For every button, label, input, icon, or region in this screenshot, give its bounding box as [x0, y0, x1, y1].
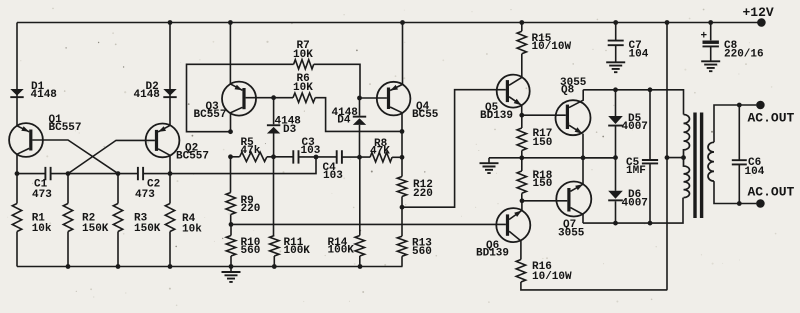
diode D4	[353, 116, 366, 125]
resistor R15	[521, 23, 523, 32]
svg-text:220: 220	[241, 203, 261, 215]
wire R7 left path	[187, 64, 294, 131]
svg-text:4007: 4007	[622, 197, 648, 209]
wire D-junction to ground row	[583, 157, 616, 159]
wire D5 top stub	[615, 90, 617, 116]
diode D2	[163, 89, 176, 98]
wire Q3 emitter from rail	[229, 23, 231, 84]
svg-text:104: 104	[745, 166, 765, 178]
svg-text:BC557: BC557	[49, 122, 82, 134]
wire D6 bottom stub	[615, 201, 617, 223]
resistor R5	[240, 152, 267, 161]
resistor R4	[169, 174, 171, 204]
wire R8 right stub	[392, 156, 402, 158]
node D3 bottom junction	[271, 154, 276, 159]
wire secondary top	[714, 105, 756, 142]
node R9 bottom junction	[229, 222, 234, 227]
transistor Q6	[496, 201, 530, 260]
svg-text:220: 220	[413, 188, 433, 200]
wire Q3 base stub	[246, 97, 274, 99]
svg-text:10/10W: 10/10W	[532, 41, 572, 53]
wire Q4 base stub	[360, 97, 387, 99]
svg-text:BC55: BC55	[412, 109, 439, 121]
svg-text:+12V: +12V	[743, 5, 774, 20]
svg-text:473: 473	[135, 189, 155, 201]
svg-text:D3: D3	[283, 124, 297, 136]
node R17-R18 junction	[519, 155, 524, 160]
resistor R8	[370, 153, 392, 162]
resistor R9	[230, 157, 232, 193]
node R10 bottom	[229, 264, 234, 269]
wire R12 to Q5 base	[402, 90, 506, 208]
node rail-Q4 emitter junction	[400, 20, 405, 25]
wire R6 left stub	[274, 97, 293, 99]
transistor Q8	[556, 90, 591, 158]
svg-text:560: 560	[241, 245, 261, 257]
resistor R11	[273, 157, 275, 236]
node Q6 emitter junction	[520, 198, 525, 203]
svg-text:150: 150	[533, 137, 553, 149]
transistor Q3	[222, 82, 256, 132]
svg-text:AC.OUT: AC.OUT	[748, 185, 795, 200]
capacitor C6	[738, 105, 740, 204]
svg-text:Q8: Q8	[561, 85, 575, 97]
diode D5	[608, 116, 623, 127]
svg-text:103: 103	[323, 170, 343, 182]
wire R5-C3	[267, 156, 293, 158]
wire secondary bottom	[714, 181, 756, 203]
transformer T1 core	[693, 113, 696, 219]
resistor R2	[67, 174, 69, 204]
capacitor C1	[45, 167, 50, 180]
svg-text:100K: 100K	[328, 245, 355, 257]
node center-tap C5 row junction	[665, 155, 670, 160]
node R8-Q4 collector junction	[400, 155, 405, 160]
resistor R1	[16, 174, 18, 204]
transistor Q1	[9, 123, 43, 174]
svg-text:103: 103	[301, 145, 321, 157]
node D6 bottom junction	[613, 221, 618, 226]
node R12 bottom junction	[400, 205, 405, 210]
resistor R3	[117, 174, 119, 204]
svg-text:10K: 10K	[293, 49, 313, 61]
node C6 top junction	[737, 103, 742, 108]
resistor R16	[516, 260, 525, 283]
resistor R10	[230, 224, 232, 235]
capacitor C5	[642, 160, 658, 163]
node R11 bottom	[272, 264, 277, 269]
wire C4-R8	[342, 156, 370, 158]
node Q3 collector loop junction	[228, 129, 233, 134]
resistor R14	[359, 157, 361, 235]
wire Q8 collector row	[583, 90, 683, 115]
terminal AC.OUT top	[756, 101, 765, 110]
svg-text:150K: 150K	[134, 223, 161, 235]
transistor Q2	[146, 123, 180, 173]
svg-text:10k: 10k	[32, 223, 52, 235]
wire D4 bottom stub	[359, 125, 361, 157]
node D5 top junction	[613, 87, 618, 92]
wire D4 top stub	[359, 98, 361, 116]
node C4-R8-D4 junction	[357, 155, 362, 160]
wire R7 right path	[314, 64, 360, 98]
wire C3-C4	[299, 156, 337, 158]
wire R5 left stub	[231, 156, 240, 158]
node Q5 emitter junction	[519, 113, 524, 118]
svg-text:3055: 3055	[558, 227, 585, 239]
terminal AC.OUT bottom	[756, 199, 765, 208]
node rail-C7 junction	[613, 20, 618, 25]
wire R9 to Q6 base	[231, 223, 506, 225]
node R4 bottom	[168, 264, 173, 269]
wire Q1 base cross-coupling	[32, 140, 118, 174]
wire D3 top stub	[273, 98, 275, 125]
wire Q5 emitter to Q8 base	[522, 114, 566, 116]
wire D3 bottom stub	[273, 134, 275, 157]
svg-text:47K: 47K	[370, 146, 390, 158]
node Q4 collector loop junction	[400, 129, 405, 134]
wire multivibrator row	[17, 157, 316, 174]
resistor R12	[401, 131, 403, 176]
diode D3	[267, 124, 280, 133]
resistor R13	[401, 207, 403, 236]
transistor Q5	[497, 75, 530, 116]
svg-text:1MF: 1MF	[626, 165, 646, 177]
wire D5-D6 link	[615, 127, 617, 191]
node Q7-Q8 emitter junction	[581, 155, 586, 160]
capacitor C7	[615, 23, 617, 41]
node C3-C4 junction	[314, 155, 319, 160]
svg-text:100K: 100K	[284, 245, 311, 257]
svg-text:10k: 10k	[182, 223, 202, 235]
svg-text:220/16: 220/16	[724, 48, 764, 60]
svg-text:10K: 10K	[293, 82, 313, 94]
wire center tap vertical	[666, 23, 668, 290]
wire +12V top rail	[17, 22, 761, 24]
ground main	[230, 267, 232, 273]
svg-text:BC557: BC557	[194, 109, 227, 121]
svg-text:473: 473	[32, 189, 52, 201]
node Q1 collector junction	[15, 171, 20, 176]
svg-text:560: 560	[412, 246, 432, 258]
node Q4 base junction	[357, 96, 362, 101]
svg-text:104: 104	[629, 48, 649, 60]
node rail-R15 junction	[519, 20, 524, 25]
transformer T1 secondary winding	[708, 142, 714, 181]
transistor Q7	[556, 158, 591, 223]
node R2 bottom	[66, 264, 71, 269]
capacitor C8 electrolytic	[710, 23, 712, 41]
node R14 bottom	[358, 264, 363, 269]
node R3 bottom	[116, 264, 121, 269]
ground driver stage	[488, 158, 490, 163]
wire Q2 base cross-coupling	[68, 140, 155, 173]
capacitor C4	[337, 150, 342, 163]
svg-text:4148: 4148	[31, 89, 58, 101]
resistor R7	[294, 60, 314, 69]
svg-text:BD139: BD139	[480, 110, 513, 122]
wire center tap stub	[667, 157, 684, 159]
wire C5 vertical	[649, 90, 651, 223]
svg-text:D4: D4	[337, 114, 351, 126]
capacitor C3	[293, 150, 298, 163]
node rail-D2 junction	[168, 20, 173, 25]
svg-text:+: +	[701, 30, 708, 42]
node rail-Q3 emitter junction	[228, 20, 233, 25]
wire D2 branch vertical	[169, 23, 171, 126]
resistor R6	[293, 93, 315, 102]
wire D1 branch vertical	[16, 23, 18, 126]
wire bottom rail	[17, 266, 403, 268]
wire Q6 emitter to Q7 base	[522, 200, 567, 202]
wire Q4 emitter from rail	[402, 23, 404, 85]
node Q2 collector junction	[168, 171, 173, 176]
wire R6 right path	[315, 98, 402, 132]
diode D1	[10, 89, 23, 98]
svg-text:BC557: BC557	[176, 150, 209, 162]
svg-text:4007: 4007	[622, 121, 648, 133]
node R5 left junction	[228, 154, 233, 159]
node Q3 base junction	[271, 95, 276, 100]
node primary center tap	[681, 155, 686, 160]
svg-text:BD139: BD139	[476, 248, 509, 260]
node rail-C8 junction	[708, 20, 713, 25]
node C1-R2 junction	[66, 171, 71, 176]
node C5 bottom junction	[648, 221, 653, 226]
node rail-center-tap junction	[665, 20, 670, 25]
resistor R18	[521, 158, 523, 171]
svg-text:AC.OUT: AC.OUT	[748, 111, 795, 126]
wire Q7 collector row	[583, 198, 683, 224]
node C6 bottom junction	[737, 201, 742, 206]
node D5-D6 junction	[613, 155, 618, 160]
node C2-R3 junction	[116, 171, 121, 176]
wire emitter ground row	[489, 157, 616, 159]
diode D6	[608, 191, 623, 201]
terminal +12V	[757, 18, 766, 27]
transistor Q4	[377, 82, 411, 132]
node C5 top junction	[648, 87, 653, 92]
svg-text:150K: 150K	[82, 223, 109, 235]
capacitor C2	[138, 167, 143, 180]
svg-text:47k: 47k	[241, 145, 261, 157]
resistor R17	[521, 115, 523, 128]
transformer T1 primary winding	[684, 115, 690, 198]
svg-text:4148: 4148	[134, 89, 161, 101]
svg-text:150: 150	[533, 178, 553, 190]
svg-text:10/10W: 10/10W	[532, 271, 572, 283]
